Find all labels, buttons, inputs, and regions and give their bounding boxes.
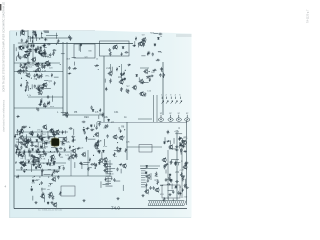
trunk [66, 42, 68, 116]
output jack J1 [158, 115, 163, 122]
capacitor C92 [170, 179, 172, 183]
ink stamp halo [50, 137, 61, 148]
test point arrow TP2 [166, 97, 168, 104]
resistor R1 [28, 49, 32, 51]
wire [20, 70, 28, 72]
resistor R10 [35, 33, 37, 37]
wire [100, 122, 187, 124]
transistor Q4 [18, 45, 23, 50]
wire [41, 188, 43, 192]
node junction [179, 127, 180, 128]
resistor R54 [143, 43, 145, 47]
svg-text:VR1: VR1 [45, 76, 50, 78]
resistor R100 [68, 156, 70, 160]
wire [172, 199, 174, 201]
diode D3 [41, 53, 43, 56]
resistor R114 [95, 163, 97, 167]
resistor R69 [26, 139, 28, 143]
resistor R157 [179, 145, 183, 147]
wire [24, 150, 26, 156]
parts list line [106, 185, 113, 187]
parts list line [106, 180, 112, 182]
capacitor C52 [34, 145, 38, 147]
wire [121, 64, 123, 80]
resistor R45 [121, 79, 125, 81]
diode D25 [20, 154, 22, 157]
wire [74, 162, 76, 168]
diode D8 [35, 50, 37, 53]
capacitor C36 [159, 33, 163, 35]
resistor R85 [49, 162, 51, 166]
capacitor C14 [34, 84, 36, 88]
resistor R78 [53, 161, 57, 163]
resistor R6 [28, 52, 30, 56]
wire [175, 162, 181, 164]
capacitor C76 [116, 168, 118, 172]
wire [42, 104, 44, 107]
parts list line b [141, 170, 146, 172]
resistor R76 [28, 159, 30, 163]
transistor Q37 [55, 129, 60, 134]
node junction [161, 71, 162, 72]
diode D19 [92, 109, 94, 112]
wire [45, 51, 47, 57]
resistor R62 [120, 129, 122, 133]
transistor Q13 [17, 69, 22, 74]
wire [51, 95, 53, 101]
transistor Q41 [71, 148, 76, 153]
wire [33, 30, 36, 32]
resistor R154 [94, 65, 99, 67]
resistor R143 [165, 164, 169, 166]
node junction [64, 139, 65, 140]
node junction [19, 57, 20, 58]
capacitor C8 [43, 52, 45, 56]
node junction [34, 176, 35, 177]
node junction [93, 155, 94, 156]
wire [170, 140, 172, 144]
wire [179, 149, 181, 153]
module box 1 [74, 44, 95, 58]
svg-text:6.8: 6.8 [48, 186, 51, 188]
capacitor C16 [19, 69, 21, 73]
transistor Q35 [50, 154, 55, 159]
capacitor C20 [38, 88, 40, 92]
capacitor C7 [29, 49, 31, 53]
transistor Q61 [64, 112, 69, 117]
transistor Q7 [44, 60, 49, 65]
resistor R109 [42, 169, 44, 173]
transistor Q36 [22, 138, 27, 143]
wire [44, 88, 51, 90]
wire [81, 163, 83, 169]
trunk [181, 140, 183, 198]
wire [24, 55, 26, 59]
parts list line b [141, 172, 146, 174]
capacitor C69 [84, 131, 86, 135]
capacitor C89 [168, 176, 170, 180]
diode D10 [42, 87, 44, 90]
transistor Q23 [119, 135, 124, 140]
resistor R145 [184, 184, 186, 188]
resistor R41 [48, 101, 50, 105]
wire [36, 34, 38, 41]
resistor R46 [127, 64, 131, 66]
resistor R151 [16, 116, 20, 118]
diode D16 [154, 43, 156, 46]
node junction [39, 38, 40, 39]
wire [58, 136, 64, 138]
svg-text:PB: PB [74, 111, 78, 114]
wire [42, 172, 44, 176]
diode D7 [40, 46, 42, 49]
svg-text:VR1: VR1 [183, 136, 188, 139]
wire [19, 56, 24, 58]
wire [70, 150, 72, 176]
wire [33, 161, 39, 163]
trunk [103, 56, 105, 122]
resistor R132 [146, 183, 148, 187]
resistor R11 [44, 49, 46, 54]
svg-text:2SC1: 2SC1 [48, 152, 54, 154]
transistor Q10 [35, 62, 40, 67]
wire [73, 129, 75, 135]
module box 2 [100, 41, 130, 56]
svg-text:6.8: 6.8 [21, 158, 24, 160]
capacitor C22 [38, 62, 40, 66]
transistor Q24 [38, 135, 43, 140]
wire [44, 46, 47, 48]
parts list line [106, 178, 113, 180]
transistor Q49 [103, 163, 108, 168]
resistor R7 [32, 36, 34, 40]
wire [40, 64, 48, 66]
wire [14, 107, 63, 109]
wire [127, 146, 162, 148]
capacitor C21 [22, 69, 24, 73]
node junction [117, 142, 118, 143]
node junction [181, 161, 182, 162]
node junction [31, 78, 32, 79]
resistor R146 [182, 176, 184, 181]
resistor R121 [89, 158, 91, 162]
node junction [50, 184, 51, 185]
svg-text:C12: C12 [47, 57, 52, 59]
node junction [39, 137, 40, 138]
wire [38, 158, 40, 164]
wire [24, 50, 31, 52]
resistor R56 [156, 59, 160, 61]
resistor R127 [105, 177, 107, 181]
capacitor C49 [45, 152, 47, 156]
wire [98, 68, 99, 70]
svg-text:0.01: 0.01 [103, 146, 108, 148]
node junction [73, 146, 74, 147]
output jack J2 [168, 115, 173, 122]
resistor R39 [38, 104, 42, 106]
resistor R97 [19, 150, 21, 154]
wire [47, 131, 49, 137]
wire [40, 32, 42, 38]
test point arrow TP3 [171, 97, 173, 104]
wire [88, 138, 96, 140]
wire [110, 64, 112, 71]
resistor R18 [43, 52, 47, 54]
transistor Q51 [108, 71, 113, 76]
wire [104, 161, 108, 163]
wire [44, 198, 46, 203]
resistor R77 [52, 134, 56, 136]
wire [49, 140, 53, 142]
diode D43 [145, 171, 147, 174]
wire [16, 169, 60, 171]
resistor R34 [46, 65, 51, 67]
transistor Q44 [81, 152, 86, 157]
ground [141, 194, 144, 197]
resistor R49 [123, 72, 125, 76]
wire [98, 115, 100, 119]
wire [110, 168, 115, 170]
wire [107, 177, 109, 183]
node junction [38, 94, 39, 95]
capacitor C41 [97, 140, 99, 144]
wire [32, 156, 34, 163]
resistor R64 [125, 148, 127, 152]
wire [26, 134, 28, 138]
capacitor C94 [182, 140, 186, 142]
trunk [167, 150, 169, 199]
resistor R129 [113, 152, 115, 157]
parts list line b [141, 174, 147, 176]
node junction [30, 88, 31, 89]
wire [184, 184, 187, 186]
resistor R19 [57, 39, 59, 44]
wire [15, 47, 17, 51]
wire [41, 130, 43, 136]
wire [36, 107, 38, 110]
svg-text:R: R [66, 116, 68, 119]
transistor Q25 [29, 130, 34, 135]
wire [29, 36, 31, 42]
resistor R4 [26, 39, 28, 43]
diode D32 [40, 146, 42, 149]
diode D35 [58, 166, 60, 169]
resistor R35 [54, 81, 56, 85]
wire [72, 57, 76, 59]
wire [38, 154, 44, 156]
wire [53, 131, 55, 138]
wire [61, 53, 65, 55]
resistor R60 [102, 112, 104, 117]
transistor Q28 [19, 129, 24, 134]
resistor R111 [22, 165, 27, 167]
capacitor C35 [148, 51, 150, 55]
resistor R5 [18, 54, 20, 58]
diode D5 [35, 49, 37, 52]
parts list line b [141, 179, 146, 181]
border right lower [186, 120, 188, 205]
capacitor C42 [116, 146, 118, 150]
capacitor C78 [153, 186, 155, 190]
capacitor C55 [29, 150, 31, 154]
resistor R65 [94, 144, 96, 149]
resistor R33 [24, 63, 26, 68]
capacitor C80 [149, 186, 151, 190]
resistor R44 [121, 52, 123, 56]
resistor R47 [127, 89, 129, 94]
capacitor C50 [50, 128, 52, 132]
wire [81, 164, 88, 166]
wire [97, 121, 101, 123]
capacitor C29 [125, 51, 129, 53]
capacitor C96 [175, 146, 179, 148]
svg-text:TA-1130 p.7: TA-1130 p.7 [307, 9, 310, 23]
wire [20, 162, 66, 164]
diode D4 [32, 44, 34, 47]
diode D39 [31, 188, 33, 191]
diode D29 [37, 148, 39, 151]
capacitor C100 [175, 149, 179, 151]
capacitor C54 [31, 141, 33, 145]
wire [47, 159, 49, 164]
resistor R124 [52, 195, 54, 200]
resistor R118 [86, 128, 90, 130]
node junction [41, 131, 42, 132]
capacitor C51 [15, 144, 17, 148]
wire [104, 79, 106, 83]
node junction [16, 162, 17, 163]
wire [16, 131, 68, 133]
wire [94, 168, 96, 169]
resistor R51 [144, 92, 146, 97]
node junction [180, 186, 181, 187]
resistor R147 [181, 172, 183, 177]
wire [61, 112, 66, 114]
wire [60, 64, 61, 66]
transistor Q62 [113, 44, 118, 49]
capacitor C82 [185, 162, 189, 164]
wire [34, 49, 42, 51]
wire [184, 179, 186, 184]
resistor R120 [75, 154, 77, 159]
wire [140, 168, 158, 170]
wire [146, 77, 151, 79]
resistor R73 [15, 150, 17, 154]
capacitor C58 [20, 146, 22, 150]
border left [13, 44, 15, 209]
resistor R122 [72, 138, 74, 142]
resistor R53 [146, 76, 151, 78]
node junction [46, 128, 47, 129]
resistor R105 [59, 153, 61, 157]
capacitor C62 [69, 127, 73, 129]
wire [169, 148, 177, 150]
node junction [42, 37, 43, 38]
wire [31, 164, 38, 166]
resistor R90 [27, 139, 29, 144]
wire [150, 173, 152, 180]
resistor R38 [47, 101, 49, 105]
transistor Q16 [132, 85, 137, 90]
transistor Q9 [25, 73, 30, 78]
resistor R106 [51, 173, 53, 177]
capacitor C47 [106, 134, 108, 138]
resistor R99 [31, 131, 33, 136]
node junction [31, 186, 32, 187]
capacitor C48 [30, 144, 34, 146]
node junction [120, 88, 121, 89]
node junction [34, 64, 35, 65]
resistor R86 [30, 155, 34, 157]
transistor Q43 [94, 141, 99, 146]
transistor Q1 [23, 53, 28, 58]
resistor R48 [105, 87, 107, 91]
wire [101, 152, 103, 159]
wire [115, 180, 120, 182]
wire [14, 62, 60, 64]
resistor R52 [121, 87, 123, 92]
wire [94, 124, 96, 127]
svg-text:downloaded from elektrotanya: downloaded from elektrotanya [3, 99, 6, 132]
module box 3 [61, 186, 75, 196]
wire [96, 122, 98, 127]
wire [20, 136, 50, 138]
transistor Q12 [36, 67, 41, 72]
wire [40, 144, 42, 148]
wire [42, 143, 44, 149]
wire [87, 150, 89, 176]
wire [120, 169, 122, 174]
transistor Q6 [37, 49, 42, 54]
resistor R27 [25, 66, 27, 71]
wire [180, 151, 182, 155]
diode D22 [33, 163, 35, 166]
parts list line b [141, 186, 146, 188]
wire [14, 71, 63, 73]
trunk [62, 42, 64, 116]
transistor Q3 [31, 57, 36, 62]
resistor R26 [21, 67, 25, 69]
capacitor C27 [68, 35, 70, 39]
diode D45 [175, 185, 177, 188]
transistor Q33 [35, 157, 40, 162]
transistor Q26 [24, 139, 29, 144]
resistor R31 [41, 73, 43, 78]
paper left edge shadow [9, 31, 11, 218]
capacitor C66 [20, 166, 22, 170]
diode D18 [90, 124, 92, 127]
wire [39, 99, 41, 106]
resistor R128 [119, 164, 123, 166]
capacitor C87 [172, 190, 174, 194]
wire [65, 131, 67, 134]
wire [44, 56, 49, 58]
wire [32, 196, 34, 201]
resistor R139 [180, 192, 182, 196]
wire [177, 162, 179, 165]
wire [38, 86, 40, 91]
resistor R93 [19, 162, 23, 164]
transistor Q11 [36, 86, 41, 91]
wire [83, 161, 90, 163]
node junction [125, 70, 126, 71]
svg-text:74.0: 74.0 [111, 206, 120, 211]
resistor R156 [132, 45, 136, 47]
node junction [25, 51, 26, 52]
capacitor C45 [106, 124, 108, 128]
capacitor C63 [64, 148, 66, 152]
transistor Q20 [141, 37, 146, 42]
